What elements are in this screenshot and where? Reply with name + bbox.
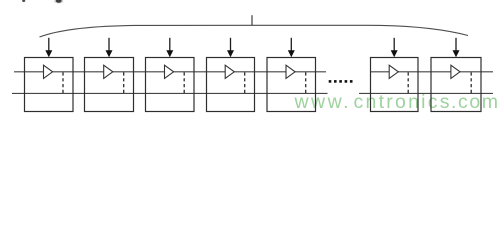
amplifier A7	[451, 65, 460, 78]
input arrow 6	[391, 38, 398, 58]
dashed connection 3	[183, 72, 185, 93]
cropped caption text fragment 2	[54, 0, 63, 3]
amplifier A1	[44, 65, 53, 78]
watermark	[294, 91, 499, 113]
cropped caption text fragment 1	[22, 0, 25, 2]
dashed connection 7	[470, 72, 472, 93]
stage box 4	[207, 58, 255, 112]
amplifier A3	[165, 65, 174, 78]
wire lower bus right segment	[359, 92, 493, 94]
brace (stage-count annotation arc)	[40, 25, 469, 37]
input arrow 5	[288, 38, 295, 58]
stage box 2	[85, 58, 134, 112]
stage box 7	[431, 58, 481, 112]
dashed connection 2	[123, 72, 125, 93]
wire lower bus left segment	[12, 92, 328, 94]
stage box 1	[25, 58, 74, 112]
wire upper bus right segment	[371, 71, 494, 73]
input arrow 7	[453, 38, 460, 58]
input arrow 3	[166, 38, 173, 58]
amplifier A4	[225, 65, 234, 78]
input arrow 1	[45, 38, 52, 58]
wire upper bus left segment	[14, 71, 326, 73]
input arrow 2	[106, 38, 113, 58]
dashed connection 4	[244, 72, 246, 93]
stage box 6	[371, 58, 419, 112]
svg-text:www.cntronics.com: www.cntronics.com	[294, 91, 499, 113]
amplifier A2	[104, 65, 113, 78]
brace center tick	[251, 15, 253, 25]
dashed connection 5	[305, 72, 307, 93]
ellipsis dots (repeated stages)	[329, 80, 353, 83]
stage box 5	[267, 58, 316, 112]
dashed connection 6	[407, 72, 409, 93]
amplifier A6	[389, 65, 398, 78]
dashed connection 1	[62, 72, 64, 93]
input arrow 4	[227, 38, 234, 58]
stage box 3	[146, 58, 195, 112]
amplifier A5	[286, 65, 295, 78]
